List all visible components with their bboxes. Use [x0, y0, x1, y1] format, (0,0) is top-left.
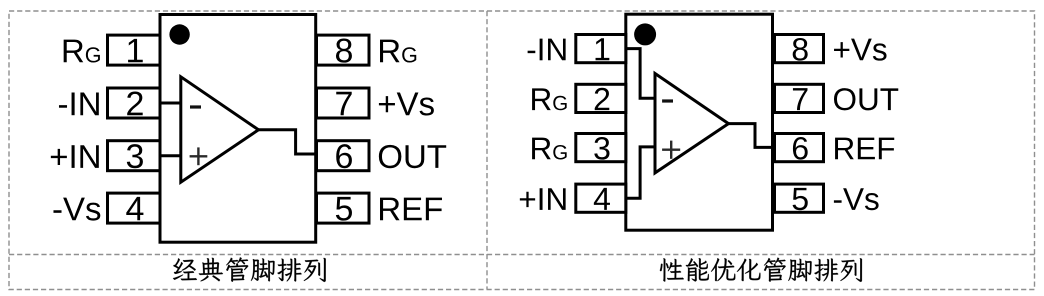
- pin label OUT (U2 right): [834, 88, 898, 110]
- pin label +Vs (U2 right): [834, 39, 886, 61]
- op-amp triangle U1: [181, 77, 259, 182]
- pin label RG (U1 right): [380, 40, 416, 63]
- op-amp triangle U2: [655, 74, 729, 173]
- pin number 4 (U1): [126, 197, 143, 220]
- pin box U2 pin 4: [576, 184, 626, 212]
- table column separator: [486, 11, 488, 290]
- pin label +IN (U2 left): [520, 188, 566, 210]
- pin box U2 pin 5: [775, 184, 824, 212]
- pin box U1 pin 4: [108, 193, 161, 223]
- op-amp inverting input mark (-) U1: [190, 105, 201, 108]
- pin 1 indicator dot U2: [634, 23, 656, 45]
- pin label RG (U2 left): [532, 88, 567, 110]
- caption: performance optimized pin arrangement (Xing Neng You Hua Guan Jiao Pai Lie): [660, 258, 862, 282]
- wire pin2 to inverting input U1: [160, 102, 181, 105]
- caption: classic pin arrangement (Jing Dian Guan Jiao Pai Lie): [173, 257, 326, 282]
- pin box U2 pin 8: [775, 35, 824, 63]
- wire pin3 to non-inverting input U1: [160, 154, 181, 157]
- pin box U2 pin 7: [775, 84, 824, 112]
- pin number 2 (U2): [595, 88, 610, 110]
- pin label -IN (U2 left): [528, 39, 566, 61]
- op-amp non-inverting input mark (+) U1: [190, 147, 208, 165]
- wire op-amp output to pin 6 U1: [259, 130, 316, 154]
- pin number 8 (U2): [793, 38, 808, 61]
- wire pin1 to inverting input U2: [626, 49, 655, 99]
- pin label +Vs (U1 right): [379, 92, 434, 115]
- pin number 3 (U1): [127, 144, 143, 168]
- pin number 6 (U2): [793, 137, 808, 160]
- pin box U2 pin 3: [576, 134, 626, 162]
- IC package body U2: [626, 14, 773, 230]
- pin box U1 pin 5: [317, 193, 370, 223]
- pin box U1 pin 6: [317, 141, 370, 171]
- pin 1 indicator dot U1: [169, 24, 189, 44]
- op-amp non-inverting input mark (+) U2: [662, 141, 680, 159]
- table caption row separator: [9, 254, 1035, 256]
- pin number 7 (U1): [336, 92, 351, 115]
- pin label -Vs (U2 right): [834, 188, 879, 210]
- pin box U1 pin 3: [108, 141, 161, 171]
- wire op-amp output to pin 6 U2: [729, 124, 773, 148]
- pin box U2 pin 6: [775, 134, 824, 162]
- op-amp inverting input mark (-) U2: [662, 99, 673, 102]
- pin number 1 (U2): [596, 38, 610, 60]
- pin label -Vs (U1 left): [53, 198, 100, 221]
- pin label REF (U1 right): [380, 198, 442, 221]
- pin label RG (U2 left): [532, 138, 567, 160]
- pin box U1 pin 8: [317, 35, 370, 65]
- pin box U1 pin 7: [317, 88, 370, 118]
- pin number 7 (U2): [793, 88, 808, 110]
- pin number 3 (U2): [594, 137, 609, 160]
- pin box U2 pin 2: [576, 84, 626, 112]
- pin number 5 (U1): [336, 197, 352, 221]
- pin label -IN (U1 left): [59, 92, 99, 115]
- pin label OUT (U1 right): [379, 145, 446, 168]
- pin number 4 (U2): [594, 188, 610, 210]
- pin number 8 (U1): [336, 39, 352, 63]
- pin label RG (U1 left): [64, 40, 100, 63]
- wire pin4 to non-inverting input U2: [626, 147, 655, 198]
- pin label +IN (U1 left): [51, 145, 99, 168]
- pin number 6 (U1): [336, 144, 352, 168]
- pin box U1 pin 1: [108, 35, 161, 65]
- pin label REF (U2 right): [835, 138, 894, 160]
- pin number 2 (U1): [127, 91, 142, 115]
- IC package body U1: [160, 15, 316, 243]
- pin number 5 (U2): [793, 188, 808, 210]
- pin box U2 pin 1: [576, 35, 626, 63]
- pin number 1 (U1): [128, 39, 143, 62]
- pin box U1 pin 2: [108, 88, 161, 118]
